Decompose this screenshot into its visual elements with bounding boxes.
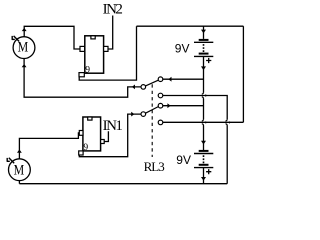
crossover hooks at (227.2,122.4) — [226, 119, 228, 125]
battery B2 bottom 9V — [194, 141, 213, 181]
svg-text:M: M — [18, 39, 29, 55]
relay pole B node — [141, 112, 146, 117]
motor M1 — [13, 37, 35, 59]
wire throw A2 right and down — [163, 96, 227, 184]
wire motor M1 bottom to relay pole A — [24, 58, 141, 97]
wire battery column top section — [203, 26, 205, 39]
svg-text:M: M — [14, 162, 25, 178]
wire throw B1 to battery column — [163, 105, 204, 107]
relay contact lever B — [146, 107, 159, 114]
battery B1 top 9V — [194, 30, 213, 71]
motor M2 rotation arrow — [7, 158, 14, 163]
wire top rail — [137, 25, 244, 27]
svg-text:RL3: RL3 — [144, 159, 165, 174]
svg-text:9V: 9V — [176, 153, 191, 167]
relay RL3 linkage dashed line — [151, 84, 153, 157]
svg-text:9: 9 — [85, 66, 90, 76]
relay throw B2 node — [158, 120, 163, 125]
current arrow up at motor M1 top — [22, 28, 27, 31]
current arrow left on throw A1 wire — [168, 77, 171, 82]
svg-text:9V: 9V — [175, 42, 190, 56]
wire bottom rail — [19, 183, 227, 185]
wire battery column bottom section — [203, 168, 205, 184]
motor M2 — [9, 159, 31, 181]
wire throw A1 to battery column — [163, 78, 204, 80]
wire throw B2 to right rail — [163, 121, 243, 123]
relay pole A node — [141, 85, 146, 90]
wire motor M2 top to IC IN1 left pin — [19, 133, 79, 159]
svg-text:9: 9 — [83, 143, 88, 153]
relay throw B1 node — [158, 103, 163, 108]
crossover hooks at (203.5,95.5) — [202, 92, 204, 98]
relay contact lever A — [146, 80, 159, 86]
IC IN2 body — [85, 36, 104, 73]
wire IC IN1 right pin to label IN1 — [104, 131, 108, 141]
current arrow up at motor M1 bottom — [22, 64, 27, 67]
wire motor M1 top to IC IN2 left pin — [24, 26, 80, 49]
current arrow right on throw B1 wire — [167, 103, 170, 108]
wire IC IN2 right pin to label IN2 — [108, 16, 113, 50]
wire IC IN2 bottom pin to top rail — [79, 26, 136, 80]
relay throw A1 node — [158, 77, 163, 82]
current arrow left on pole A wire — [132, 85, 135, 90]
motor M1 rotation arrow — [12, 36, 19, 42]
current arrow up at motor M2 top — [17, 149, 22, 152]
IC IN1 body — [83, 117, 101, 151]
relay throw A2 node — [158, 93, 163, 98]
svg-text:IN2: IN2 — [103, 2, 123, 18]
wire right rail down — [242, 26, 244, 122]
current arrow right on pole B wire — [131, 112, 134, 117]
wire IC IN1 bottom pin to relay pole B — [79, 114, 141, 157]
wire motor M2 bottom stub — [18, 181, 20, 184]
wire battery column mid section with break hooks — [203, 57, 205, 92]
crossover hooks at (203.5,122.4) — [202, 119, 204, 125]
svg-text:IN1: IN1 — [103, 118, 123, 134]
